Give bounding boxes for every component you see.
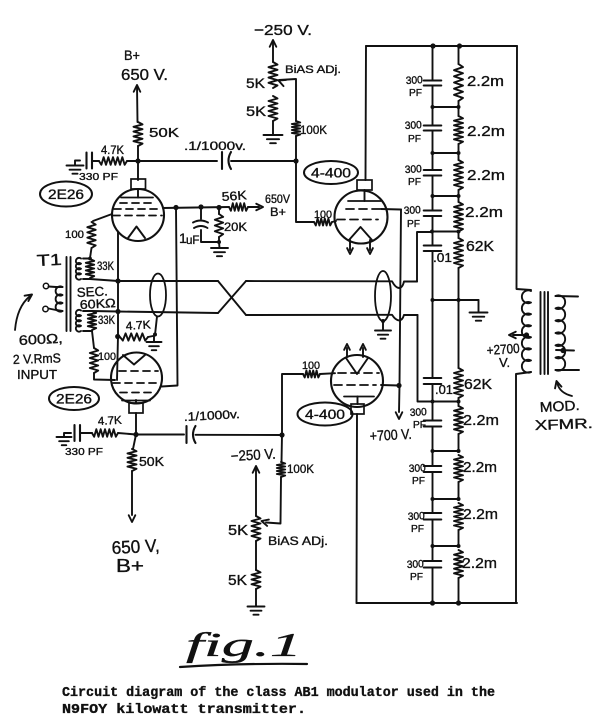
svg-text:300: 300 <box>405 119 423 132</box>
label 100 (lower 2E26) <box>98 351 116 363</box>
wire lower twist (left segment) <box>118 312 218 314</box>
net -250V arrow (lower) <box>253 466 260 516</box>
label 300PF #1 <box>406 74 424 99</box>
svg-text:4.7K: 4.7K <box>101 145 124 157</box>
MOD XFMR core <box>541 292 549 374</box>
svg-text:300: 300 <box>406 74 424 87</box>
resistor 62K #1 <box>454 232 463 269</box>
wire bottom rail <box>357 602 518 604</box>
label 20K <box>224 220 247 234</box>
label 4-400 (lower, oval) <box>298 403 353 426</box>
resistor 2.2M #8 <box>454 550 463 603</box>
label 2.2M #8 <box>462 555 497 572</box>
resistor 2.2M #6 <box>454 455 463 499</box>
tube V3 grid 2 (dashed) <box>337 219 378 221</box>
label 300PF #3 <box>405 163 423 188</box>
capacitor 300PF #1 <box>424 81 442 86</box>
capacitor .01 #1 <box>424 246 442 252</box>
label 300PF #2 <box>405 119 423 145</box>
wire cap column to .01 #2 <box>432 300 434 378</box>
tube V2 grid 2 (dashed) <box>113 382 157 384</box>
potentiometer 5K (lower bias pot) <box>252 516 261 541</box>
tube V3 plate <box>348 200 381 202</box>
svg-text:PF: PF <box>407 218 420 230</box>
tube V3 filament lead right <box>367 240 373 254</box>
wire -250V arrow (upper) <box>270 40 277 62</box>
net +700V arrow <box>396 412 403 419</box>
label 100 (lower 4-400 grid) <box>302 360 320 372</box>
label B+ (lower) <box>116 556 144 576</box>
svg-text:5K: 5K <box>246 103 267 119</box>
wire res column 2 <box>458 144 460 160</box>
tube V3 top cap <box>357 180 372 201</box>
resistor 2.2M #2 <box>454 116 463 144</box>
junction rung 7 <box>433 449 461 453</box>
label 2.2M #3 <box>467 167 505 184</box>
junction dot shield (right) <box>381 319 385 323</box>
svg-text:650 V.: 650 V. <box>121 67 168 84</box>
svg-text:PF: PF <box>409 87 422 99</box>
label 50K <box>149 125 179 140</box>
wire arrow to 650V B+ (screen feed) <box>248 204 263 211</box>
svg-text:600Ω,: 600Ω, <box>18 331 63 348</box>
svg-text:INPUT: INPUT <box>17 368 57 382</box>
svg-text:300: 300 <box>410 406 428 419</box>
capacitor 300PF #2 <box>424 126 442 131</box>
label 100 (upper 4-400 grid) <box>314 209 332 221</box>
svg-text:5K: 5K <box>228 523 248 539</box>
transformer T1 core <box>67 257 71 331</box>
pot wiper arrow (lower BIAS ADJ) <box>262 520 269 526</box>
wire screen tie line (V1 to V2 screens) <box>162 208 178 387</box>
capacitor 330 PF (upper) <box>87 153 93 169</box>
junction dot rail/cap column <box>430 43 435 48</box>
MOD XFMR secondary winding <box>556 295 566 370</box>
resistor 100K (upper) <box>292 121 300 136</box>
capacitor .01 #2 <box>424 378 442 384</box>
svg-text:5K: 5K <box>228 573 247 589</box>
resistor 100 (lower 2E26 grid) <box>90 348 98 373</box>
MOD XFMR pointer arrow <box>555 381 572 396</box>
label 62K #1 <box>466 239 494 255</box>
wire node C to coupling cap (lower) <box>136 434 184 436</box>
capacitor 300PF #3 <box>424 170 442 176</box>
svg-text:B+: B+ <box>124 47 140 63</box>
junction rung 9 <box>433 544 461 548</box>
wire V1 grid to 100 resistor <box>93 214 112 221</box>
wire lower grid riser to ladder tap <box>418 315 432 402</box>
svg-text:.01: .01 <box>433 251 452 265</box>
label 650 V, (lower) <box>111 536 160 558</box>
wire lower twist (right segment) <box>246 315 418 321</box>
capacitor .1/1000V (lower coupling) <box>187 426 196 443</box>
wire V3 screen to +700V line <box>381 208 401 211</box>
svg-text:100: 100 <box>98 351 116 363</box>
tube V3 4-400 (upper) envelope <box>335 191 388 244</box>
label 5K (lower pot) <box>228 523 248 539</box>
tube V2 cathode triangle <box>123 355 145 365</box>
svg-text:2.2m: 2.2m <box>467 167 505 184</box>
wire 100 to 4-400 grid <box>332 221 336 222</box>
junction dot (20K branch) <box>216 205 221 210</box>
svg-text:2.2m: 2.2m <box>463 506 498 523</box>
svg-text:60KΩ: 60KΩ <box>79 296 116 312</box>
junction rung 8 <box>433 497 461 501</box>
capacitor 300PF #5 <box>424 421 442 427</box>
wire res column 3 <box>458 190 460 202</box>
label 2 V.RMS <box>13 350 62 367</box>
label 62K #2 <box>464 377 492 393</box>
svg-text:56K: 56K <box>221 188 248 204</box>
wire ground stub (ladder) <box>459 300 479 312</box>
net 650V B+ (screen) label <box>265 194 290 219</box>
label 330 PF (upper) <box>79 171 118 183</box>
label .1/1000V (lower) <box>183 407 240 424</box>
svg-text:4.7K: 4.7K <box>125 319 151 333</box>
resistor 2.2M #3 <box>454 160 463 190</box>
wire 100 to secondary top node <box>90 248 92 258</box>
label 300PF #5 <box>410 406 428 431</box>
wire 50K to node A <box>137 146 139 160</box>
junction dot (1uF branch) <box>198 204 203 209</box>
svg-text:33K: 33K <box>97 261 114 273</box>
label 2.2M #7 <box>463 506 498 523</box>
label 2.2M #2 <box>467 123 505 140</box>
ground (screen bypass) <box>211 248 228 256</box>
junction dot cathode/upper twist <box>115 278 120 283</box>
wire cap column to cap7 <box>432 499 434 513</box>
resistor 100K (lower) <box>277 462 285 477</box>
wire node B down/right to grid resistor <box>296 161 314 222</box>
label -250V. (lower) <box>230 447 276 465</box>
label 1uF <box>179 230 199 247</box>
net 650V B+ (lower) arrow <box>129 515 136 522</box>
svg-text:50K: 50K <box>139 454 164 469</box>
capacitor 300PF #8 <box>424 561 442 568</box>
svg-text:100: 100 <box>65 229 84 241</box>
label 300PF #6 <box>409 462 427 487</box>
svg-text:300: 300 <box>408 510 426 523</box>
svg-text:fig.1: fig.1 <box>186 627 302 664</box>
wire upper twist (left segment) <box>118 280 218 282</box>
resistor 4.7K (shield drain) <box>120 333 153 340</box>
junction dot (1uF/20K bottom) <box>217 240 221 244</box>
MOD XFMR primary winding <box>522 290 531 372</box>
svg-text:4-400: 4-400 <box>311 165 351 181</box>
tube V1 plate <box>121 197 153 199</box>
resistor 2.2M #4 <box>454 202 463 232</box>
svg-text:33K: 33K <box>98 315 115 327</box>
resistor 4.7K (upper grid blocking) <box>99 157 127 165</box>
net -250V (upper) label <box>254 22 312 39</box>
shield drain wire (left) <box>155 317 157 334</box>
junction dot rail/resistor column <box>457 43 462 48</box>
svg-text:Circuit diagram of the class A: Circuit diagram of the class AB1 modulat… <box>62 686 495 701</box>
svg-text:20K: 20K <box>224 220 247 234</box>
svg-text:V.: V. <box>499 355 510 370</box>
label 2.2M #4 <box>465 204 503 221</box>
label .1/1000V (upper) <box>184 139 246 153</box>
svg-text:BiAS ADj.: BiAS ADj. <box>285 64 341 76</box>
junction dot cathode/4.7K drain <box>115 334 120 339</box>
resistor 50K (upper) <box>134 122 143 146</box>
wire cap column 7-8 <box>431 520 435 549</box>
resistor 50K (lower) <box>128 435 137 472</box>
ground (lower-left, 330PF) <box>57 433 72 445</box>
tube V1 grid 2 (dashed) <box>114 208 161 210</box>
tube V1 grid 1 (dashed) <box>120 202 156 204</box>
label 330 PF (lower) <box>65 446 103 458</box>
caption line 1 <box>62 686 495 701</box>
node B+ 650V (top-left supply label) <box>121 47 168 84</box>
node C junction dot (V2 plate node) <box>133 432 138 437</box>
wire B+ arrow up to 50K <box>134 85 141 122</box>
svg-text:4-400: 4-400 <box>305 406 345 422</box>
svg-text:300: 300 <box>405 163 423 176</box>
tube V4 grid 2 (dashed) <box>334 384 376 386</box>
svg-text:62K: 62K <box>466 239 494 255</box>
capacitor 300PF #4 <box>424 211 442 217</box>
wire top rail to V3 top cap <box>365 46 368 180</box>
wire V2 plate lead down <box>135 413 137 434</box>
tube V1 top cap (plate cap) <box>131 179 146 198</box>
svg-text:XFMR.: XFMR. <box>535 415 594 433</box>
svg-text:2.2m: 2.2m <box>463 459 497 476</box>
ground (upper bias network) <box>264 135 283 143</box>
svg-text:2.2m: 2.2m <box>463 412 499 429</box>
wire node A to coupling cap .1/1000V (upper) <box>138 160 217 162</box>
label BIAS ADJ. (upper) <box>285 64 341 76</box>
wire 5K to ground (lower) <box>255 589 257 606</box>
resistor 20K <box>215 207 223 242</box>
potentiometer 5K (upper bias pot) <box>269 62 278 88</box>
junction dot +2700V tap <box>524 332 529 337</box>
label SEC. <box>76 283 108 300</box>
capacitor 1uF <box>193 207 218 242</box>
node A junction dot (plate node upper 2E26) <box>135 158 140 163</box>
capacitor 300PF #7 <box>424 513 442 520</box>
wire node D to 100K (lower) <box>281 435 284 462</box>
junction dot shield drain <box>153 333 157 337</box>
wire res column 1 <box>458 101 460 116</box>
tube V4 4-400 (lower) envelope <box>331 355 383 407</box>
label 56K <box>221 188 248 204</box>
wire +700V screen line <box>399 210 401 413</box>
tube V4 plate <box>344 396 374 398</box>
svg-text:MOD.: MOD. <box>539 397 580 415</box>
tube V2 bottom cap <box>129 400 143 413</box>
wire 33K to 100 (lower grid chain) <box>92 331 94 348</box>
svg-text:−250 V.: −250 V. <box>230 447 276 465</box>
svg-text:2.2m: 2.2m <box>467 123 505 140</box>
wire cap column to cap5 <box>432 402 434 421</box>
junction rung 6 (lower grid tap) <box>431 400 461 404</box>
label XFMR. <box>535 415 594 433</box>
svg-text:.1/1000v.: .1/1000v. <box>184 139 246 153</box>
tube V1 2E26 (upper) envelope <box>112 189 164 241</box>
svg-text:.01: .01 <box>435 383 453 397</box>
label 300PF #8 <box>407 558 425 583</box>
svg-text:300: 300 <box>407 558 425 571</box>
pot wiper arrow (upper BIAS ADJ) <box>279 79 297 121</box>
label 4.7K (lower) <box>98 415 123 428</box>
label 2E26 (upper, oval) <box>40 182 92 207</box>
tube V3 filament lead left <box>347 240 353 254</box>
svg-text:5K: 5K <box>246 75 266 91</box>
resistor 56K <box>229 203 248 211</box>
label MOD. <box>539 397 580 415</box>
label 4.7K (shield drain) <box>125 319 151 333</box>
wire upper twist (right segment) <box>246 281 417 288</box>
T1 secondary winding upper <box>76 258 81 280</box>
label 100K (lower) <box>287 462 314 476</box>
wire right rail upper (rail to primary) <box>517 46 532 290</box>
label INPUT <box>17 368 57 382</box>
T1 primary winding <box>49 286 63 311</box>
wire lower secondary node (lower twist start) <box>92 310 118 313</box>
svg-text:2.2m: 2.2m <box>467 73 504 90</box>
resistor 2.2M #5 <box>454 402 463 452</box>
label 33K (lower) <box>98 315 115 327</box>
svg-text:PF: PF <box>413 419 426 431</box>
wire res column 4 <box>458 268 460 300</box>
T1 secondary winding lower <box>76 310 81 332</box>
label +2700 V. <box>486 341 520 370</box>
wire cap to node B <box>231 160 296 162</box>
ground (right shield) <box>375 331 391 339</box>
resistor 2.2M #1 <box>454 46 463 101</box>
svg-text:330 PF: 330 PF <box>65 446 103 458</box>
label .01 #1 <box>433 251 452 265</box>
capacitor 300PF #6 <box>424 466 442 472</box>
junction rung 5 (ground tap) <box>431 298 461 302</box>
junction rung 3 <box>431 194 461 198</box>
svg-text:.1/1000v.: .1/1000v. <box>183 407 240 424</box>
wire V1 screen to bypass node <box>163 207 229 208</box>
wire coupling node to 100 (lower) <box>282 374 303 435</box>
resistor 33K (upper half secondary) <box>83 259 94 280</box>
wire 5K to ground (upper) <box>272 121 274 134</box>
node secondary-top junction <box>88 257 92 261</box>
resistor 62K #2 <box>454 368 463 402</box>
tube V3 filament <box>349 227 372 240</box>
tube V2 plate <box>122 400 150 402</box>
wire 100 to V2 grid <box>94 373 115 380</box>
junction dot cathode/lower twist <box>115 309 120 314</box>
label T1 <box>36 252 62 270</box>
resistor 100 (upper 2E26 grid) <box>87 222 95 248</box>
wire cap column 3-4 <box>432 176 434 211</box>
label 4.7K (upper) <box>101 145 124 157</box>
label 5K (upper second) <box>246 103 267 119</box>
wire cap column to rung 6 <box>432 384 434 402</box>
ground (ladder mid) <box>470 313 488 321</box>
label +700 V. <box>369 427 412 445</box>
wire cap column to cap8 <box>432 546 434 561</box>
tube V2 grid (dashed) <box>119 370 158 372</box>
label 2.2M #6 <box>463 459 497 476</box>
tube V4 filament <box>346 358 368 374</box>
wire to ground (20K) <box>218 242 221 248</box>
svg-text:100K: 100K <box>287 462 314 476</box>
svg-text:PF: PF <box>408 176 421 188</box>
shield loop (left) <box>150 274 166 317</box>
svg-text:2.2m: 2.2m <box>462 555 497 572</box>
resistor 33K (lower half secondary) <box>83 311 96 331</box>
label 300PF #7 <box>408 510 426 535</box>
wire twist crossover X <box>218 281 246 315</box>
wire cap column to cap6 <box>432 451 434 466</box>
wire 4.7K to node C <box>118 433 136 435</box>
tube V2 grid 3 (dashed) <box>120 392 153 394</box>
wire secondary node to cathode bus (upper twist start) <box>90 279 118 281</box>
svg-text:+700 V.: +700 V. <box>369 427 412 445</box>
wire cap column 1-2 <box>432 86 434 126</box>
wire res column 5 <box>458 300 460 368</box>
svg-text:100: 100 <box>302 360 320 372</box>
capacitor .1/1000V (upper coupling) <box>222 152 231 169</box>
svg-text:2 V.RmS: 2 V.RmS <box>13 350 62 367</box>
label 5K (upper pot) <box>246 75 266 91</box>
wire 100K to wiper (lower pot) <box>266 477 281 524</box>
resistor 100 (upper 4-400 grid stopper) <box>314 219 332 226</box>
svg-text:N9FOY kilowatt transmitter.: N9FOY kilowatt transmitter. <box>62 703 306 718</box>
svg-text:2E26: 2E26 <box>48 187 84 202</box>
MOD XFMR secondary tap <box>556 348 574 353</box>
svg-text:100: 100 <box>314 209 332 221</box>
label 4-400 (upper, oval) <box>304 161 358 184</box>
tube V1 grid 3 (dashed) <box>113 215 162 217</box>
caption line 2 <box>62 703 306 718</box>
wire cap to 4.7K <box>92 160 99 162</box>
wire 4.7K to node A <box>127 160 138 162</box>
tube V4 filament lead right <box>360 344 366 357</box>
wire cathode bus (V1 cathode down) <box>117 232 118 381</box>
wire +2700V tap arrow <box>509 332 527 339</box>
svg-text:uF: uF <box>186 235 199 247</box>
wire upper grid riser to ladder tap <box>417 232 431 282</box>
svg-text:100K: 100K <box>300 123 327 137</box>
junction rung 2 <box>431 151 461 155</box>
label 5K (lower second) <box>228 573 247 589</box>
wire top rail <box>366 45 517 47</box>
label 33K (upper) <box>97 261 114 273</box>
label 600 ohm, <box>18 331 63 348</box>
node B junction dot <box>293 158 298 163</box>
junction dot V4 screen <box>396 383 401 388</box>
svg-text:B+: B+ <box>270 205 286 219</box>
wire cap column 2-3 <box>432 131 434 171</box>
svg-text:PF: PF <box>411 523 424 535</box>
wire V4 screen to +700V line <box>381 384 399 387</box>
tube V4 filament lead left <box>344 344 350 357</box>
svg-text:650 V,: 650 V, <box>111 536 160 558</box>
wire cap column to ground rung <box>432 251 434 300</box>
svg-text:PF: PF <box>410 571 423 583</box>
svg-text:T1: T1 <box>36 252 62 270</box>
wire cap column 6-7 <box>431 472 435 501</box>
tube V3 grid (dashed) <box>346 208 381 210</box>
ground (top-left, 330PF) <box>67 161 84 174</box>
ground (shield drain) <box>147 336 162 350</box>
label 100K (upper) <box>300 123 327 137</box>
label BIAS ADJ. (lower) <box>268 536 328 548</box>
svg-text:330 PF: 330 PF <box>79 171 118 183</box>
wire V4 plate lead down to bottom rail <box>356 414 359 603</box>
wire pot to 5K (lower) <box>255 541 257 570</box>
MOD XFMR secondary top lead <box>556 295 579 298</box>
ground (lower bias network) <box>248 607 265 615</box>
